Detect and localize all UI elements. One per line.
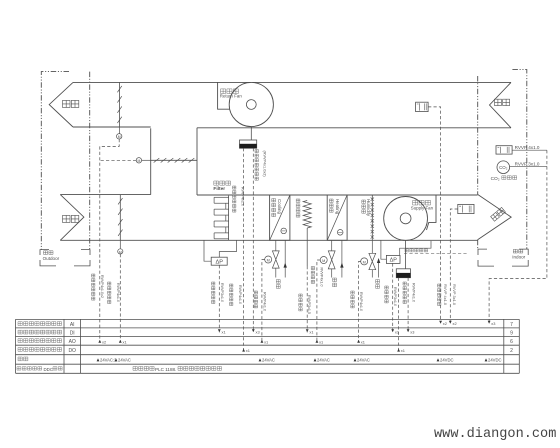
- svg-text:Humidify: Humidify: [366, 199, 371, 217]
- svg-text:RVVP 4x1.0: RVVP 4x1.0: [443, 284, 448, 306]
- svg-text:x3: x3: [256, 330, 260, 335]
- svg-text:AI: AI: [70, 322, 75, 328]
- svg-text:www.diangon.com: www.diangon.com: [434, 427, 556, 442]
- svg-text:DI: DI: [70, 331, 75, 337]
- svg-text:24VAC:2: 24VAC:2: [100, 358, 117, 363]
- svg-text:RVVP4x1.0: RVVP4x1.0: [359, 292, 363, 311]
- svg-text:9: 9: [510, 331, 513, 337]
- svg-text:ΔP: ΔP: [215, 259, 223, 265]
- svg-text:24VDC: 24VDC: [488, 358, 502, 363]
- svg-text:DO: DO: [68, 348, 76, 354]
- svg-text:M: M: [118, 135, 121, 139]
- svg-text:RVVP4x1.0x2: RVVP4x1.0x2: [100, 275, 104, 298]
- svg-text:RVVP4x1.0: RVVP4x1.0: [241, 187, 245, 206]
- svg-text:RVVP3x1.0: RVVP3x1.0: [393, 287, 397, 306]
- svg-text:RVVP 3x1.0: RVVP 3x1.0: [515, 161, 540, 166]
- svg-text:RVVP3x1.0: RVVP3x1.0: [220, 283, 224, 302]
- svg-text:x1: x1: [309, 330, 313, 335]
- svg-text:Heating: Heating: [335, 199, 340, 215]
- svg-text:M: M: [119, 250, 122, 254]
- svg-text:RVVP4x1.0: RVVP4x1.0: [263, 292, 267, 311]
- svg-text:M: M: [137, 159, 140, 163]
- svg-text:RVVP4x1.0: RVVP4x1.0: [320, 268, 324, 287]
- svg-text:x1: x1: [401, 348, 405, 353]
- svg-text:M: M: [267, 259, 270, 263]
- svg-text:AO: AO: [69, 339, 76, 345]
- svg-text:x1: x1: [264, 339, 268, 344]
- svg-text:CO₂: CO₂: [491, 176, 500, 182]
- svg-text:DDC: DDC: [44, 367, 54, 372]
- svg-text:(RVVP4x1.0x2): (RVVP4x1.0x2): [263, 151, 267, 178]
- svg-text:x2: x2: [443, 321, 447, 326]
- svg-text:PLC 1188.: PLC 1188.: [155, 367, 176, 372]
- svg-text:RVVP 3x1.0: RVVP 3x1.0: [452, 284, 457, 306]
- svg-text:24VAC: 24VAC: [262, 358, 275, 363]
- svg-text:Filter: Filter: [213, 186, 225, 192]
- svg-text:x3: x3: [491, 321, 495, 326]
- svg-text:M: M: [363, 261, 366, 265]
- svg-text:Indoor: Indoor: [512, 255, 525, 260]
- svg-text:RVVP4x1.0: RVVP4x1.0: [238, 285, 242, 304]
- svg-text:6: 6: [510, 339, 513, 345]
- svg-text:Cooling: Cooling: [277, 199, 282, 214]
- svg-text:RVVP3x1.5: RVVP3x1.5: [307, 295, 311, 314]
- svg-text:M: M: [322, 259, 325, 263]
- svg-text:x3: x3: [410, 330, 414, 335]
- svg-text:24VAC: 24VAC: [357, 358, 370, 363]
- svg-text:Return Fan: Return Fan: [220, 94, 243, 99]
- svg-text:ΔP: ΔP: [390, 258, 398, 264]
- svg-text:x2: x2: [453, 321, 457, 326]
- svg-text:RVVP4x1.0: RVVP4x1.0: [411, 283, 415, 302]
- svg-text:x1: x1: [123, 339, 127, 344]
- svg-text:x1: x1: [395, 330, 399, 335]
- svg-text:x1: x1: [319, 339, 323, 344]
- svg-text:Supply Fan: Supply Fan: [411, 205, 434, 210]
- svg-text:x1: x1: [361, 339, 365, 344]
- svg-text:CO₂: CO₂: [499, 165, 508, 170]
- svg-text:2: 2: [510, 348, 513, 354]
- svg-text:24VDC: 24VDC: [440, 358, 454, 363]
- svg-text:x1: x1: [222, 330, 226, 335]
- svg-text:RVVP 4x1.0: RVVP 4x1.0: [515, 145, 540, 150]
- svg-text:24VAC: 24VAC: [317, 358, 330, 363]
- svg-text:7: 7: [510, 322, 513, 328]
- svg-text:x1: x1: [246, 348, 250, 353]
- svg-text:Outdoor: Outdoor: [43, 256, 60, 261]
- svg-text:24VAC: 24VAC: [118, 358, 131, 363]
- svg-text:RVVP4x1.0: RVVP4x1.0: [116, 283, 120, 302]
- svg-text:x2: x2: [102, 339, 106, 344]
